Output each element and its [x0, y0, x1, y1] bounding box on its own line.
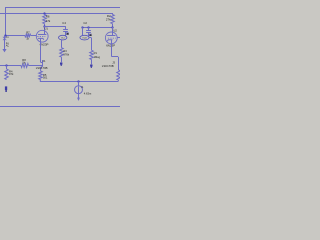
svg-text:R3: R3: [63, 49, 67, 53]
svg-text:97k: 97k: [9, 72, 14, 76]
svg-text:AC: AC: [6, 44, 10, 47]
svg-text:1Meg: 1Meg: [94, 55, 101, 59]
svg-text:4.63m: 4.63m: [84, 91, 92, 95]
svg-text:R1: R1: [94, 51, 98, 55]
svg-text:J1: J1: [43, 59, 46, 63]
svg-text:U2: U2: [113, 29, 117, 33]
svg-text:47k: 47k: [46, 19, 51, 23]
svg-text:27k: 27k: [106, 18, 111, 22]
svg-text:LSK170B: LSK170B: [102, 64, 114, 68]
svg-text:6N23P: 6N23P: [106, 44, 115, 48]
svg-text:R7: R7: [26, 30, 30, 34]
svg-text:976k: 976k: [63, 52, 69, 56]
svg-text:C4: C4: [62, 21, 66, 25]
svg-text:C2: C2: [83, 21, 87, 25]
svg-text:LSK170B: LSK170B: [36, 66, 48, 70]
svg-text:301: 301: [43, 75, 48, 79]
svg-text:Out: Out: [61, 37, 65, 40]
